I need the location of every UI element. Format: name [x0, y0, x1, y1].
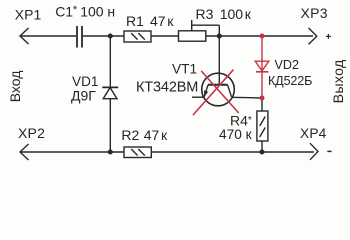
diode VD1 [102, 87, 118, 98]
resistor R1 [124, 31, 151, 42]
resistor R2 [124, 147, 151, 158]
wire R1 to R3 [151, 35, 179, 37]
node bottom red junction dot [260, 96, 265, 101]
svg-text:R4*: R4* [230, 112, 252, 128]
resistor R4 [257, 98, 268, 152]
svg-text:КД522Б: КД522Б [268, 74, 312, 88]
svg-text:R147к: R147к [126, 13, 174, 29]
red X over VT1 (deleted part mark) [193, 70, 239, 115]
connector XP4 [310, 143, 318, 160]
svg-text:КТ342ВМ: КТ342ВМ [136, 79, 198, 95]
svg-text:VD2: VD2 [275, 58, 300, 72]
node B junction dot [217, 34, 222, 39]
wire VT1 collector to node C [232, 96, 263, 99]
wire top rail left (XP1 to C1) [20, 35, 76, 37]
svg-text:XP4: XP4 [300, 126, 327, 141]
wire VT1 emitter stub [192, 96, 204, 98]
plus sign [326, 34, 331, 39]
svg-text:Вход: Вход [7, 71, 23, 103]
node A junction dot [108, 34, 113, 39]
svg-text:Д9Г: Д9Г [71, 88, 96, 104]
wire bottom rail left [20, 151, 124, 153]
wire C1 to R1 [83, 35, 124, 37]
diode VD2 [255, 61, 269, 72]
wire bottom rail right [151, 151, 314, 153]
resistor R3 (trimmer, wiper tied to right end) [179, 20, 220, 41]
wire node B down to VT1 base [218, 36, 220, 85]
wire node A down to VD1 [109, 36, 111, 88]
svg-text:XP3: XP3 [301, 5, 328, 21]
minus sign [327, 150, 331, 152]
svg-text:R247к: R247к [121, 127, 168, 143]
svg-text:XP1: XP1 [15, 7, 42, 23]
svg-text:Выход: Выход [331, 59, 347, 103]
svg-text:470 к: 470 к [219, 127, 253, 142]
node A2 junction dot [108, 150, 113, 155]
svg-text:XP2: XP2 [18, 125, 45, 141]
wire VD2 net (red vertical) [261, 36, 263, 98]
svg-text:R3100к: R3100к [196, 6, 252, 22]
svg-text:VT1: VT1 [172, 61, 197, 76]
wire VD1 down to bottom rail [109, 99, 111, 152]
svg-text:C1*100 н: C1*100 н [55, 4, 115, 20]
connector XP1 [20, 28, 29, 44]
connector XP2 [20, 144, 29, 160]
capacitor C1 [77, 26, 82, 48]
wire R3 to XP3 [206, 35, 313, 37]
transistor VT1 [202, 73, 235, 106]
node top red junction dot [260, 34, 265, 39]
node D junction dot (R4 to bottom rail) [260, 150, 265, 155]
connector XP3 [309, 28, 317, 45]
